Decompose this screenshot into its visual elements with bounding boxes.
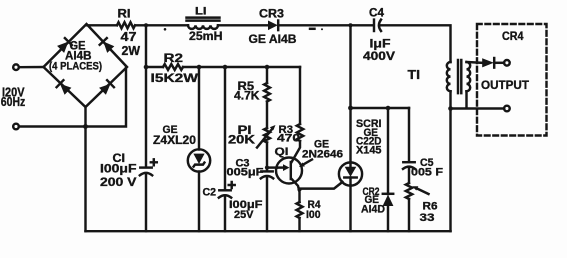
junction dot bridge-bottom/input wire (83, 124, 88, 129)
CR4 dashed enclosure (477, 24, 547, 136)
bridge diode bottom-left (60, 84, 71, 95)
diode CR4 bar (493, 58, 495, 68)
svg-text:R2: R2 (164, 51, 184, 65)
svg-text:25mH: 25mH (189, 29, 223, 43)
svg-text:I00μF: I00μF (100, 163, 137, 175)
SCR1 leads inside (349, 163, 351, 186)
output terminal top (504, 60, 510, 66)
SCR1 cathode bar (344, 176, 356, 178)
svg-text:I00: I00 (306, 209, 321, 221)
capacitor C2 (219, 189, 230, 191)
junction dot emitter/C3 (265, 166, 269, 170)
capacitor C3 (261, 170, 272, 172)
wire bridge bottom vertex to bottom rail (84, 107, 86, 231)
resistor R5 (264, 83, 270, 102)
junction dot rail/R2 row (144, 65, 149, 70)
junction dot SCR anode node (348, 106, 353, 111)
svg-text:CR3: CR3 (259, 6, 284, 20)
input terminal top (13, 64, 19, 70)
wire secondary bottom to output (451, 91, 505, 108)
wire R3 branch (299, 67, 301, 124)
junction dot gate/B1 (297, 187, 301, 191)
wire C2 branch (224, 67, 226, 231)
bridge diode top-left (57, 42, 68, 53)
inductor L1 core bars (187, 18, 220, 21)
R6 pointer arrow (416, 188, 429, 194)
wire top rail left segment (87, 24, 374, 26)
wire zener branch (198, 67, 200, 231)
speck near R1 junction (164, 28, 167, 31)
C2 plus sign (229, 182, 235, 188)
wire C1 branch vertical (145, 25, 147, 231)
svg-text:CR4: CR4 (502, 31, 524, 43)
svg-text:200 V: 200 V (100, 177, 137, 189)
svg-text:TI: TI (408, 68, 421, 82)
svg-text:R6: R6 (423, 200, 438, 212)
svg-text:AI4D: AI4D (361, 203, 385, 215)
wire CR2 branch (387, 108, 389, 231)
wire secondary top to CR4 (467, 61, 482, 64)
Q1 emitter arrow (277, 166, 284, 168)
capacitor C5 (403, 161, 414, 163)
SCR1 triangle (345, 167, 357, 177)
svg-text:I5K2W: I5K2W (151, 71, 199, 85)
zener diode GE Z4XL20 circle (188, 149, 210, 171)
wire top rail right segment to transformer (380, 25, 451, 62)
wire Q1 emitter (267, 166, 277, 168)
resistor R2 (163, 64, 183, 70)
wire SCR branch vertical (349, 25, 351, 231)
wire primary bottom to rail (449, 91, 451, 231)
bridge rectifier diamond (44, 24, 128, 107)
bridge diode bottom-right (99, 84, 110, 95)
transformer T1 primary winding (447, 62, 451, 91)
capacitor C1 (140, 166, 151, 168)
junction dot R2row/zener (197, 65, 202, 70)
transformer T1 secondary winding (467, 62, 471, 91)
resistor R6 (406, 183, 412, 199)
diode CR3 (268, 21, 278, 31)
resistor R3 (297, 124, 303, 141)
svg-text:60Hz: 60Hz (1, 95, 26, 109)
wire node to CR2/C5 branches (351, 107, 410, 109)
svg-text:OUTPUT: OUTPUT (481, 78, 530, 92)
svg-text:25V: 25V (234, 209, 254, 221)
junction dot rail/SCR branch (349, 23, 353, 27)
svg-text:33: 33 (420, 212, 435, 224)
bridge diode top-right (103, 42, 114, 53)
svg-text:LI: LI (195, 6, 207, 18)
Q1 base1 lead (292, 179, 300, 202)
transistor Q1 unijunction circle (276, 158, 302, 184)
Q1 base bar (290, 162, 292, 179)
svg-text:RI: RI (118, 9, 131, 21)
wire R5-P1-C3 branch (266, 67, 268, 231)
svg-text:400V: 400V (363, 49, 395, 63)
svg-text:X145: X145 (356, 144, 382, 156)
wire R4 to rail (298, 218, 300, 231)
svg-text:Z4XL20: Z4XL20 (153, 135, 196, 147)
svg-text:C2: C2 (203, 186, 217, 198)
junction dot R2row/C2 (223, 65, 228, 70)
input terminal bottom (13, 124, 19, 130)
svg-text:(4 PLACES): (4 PLACES) (49, 61, 102, 73)
diode CR2 bar (383, 193, 393, 195)
svg-text:2W: 2W (122, 44, 141, 58)
speck near CR3 (310, 28, 315, 30)
junction dot R1/C1 branch (144, 23, 148, 27)
svg-text:GE AI4B: GE AI4B (249, 32, 297, 46)
output terminal bottom (504, 106, 510, 112)
svg-text:QI: QI (275, 146, 289, 158)
C1 plus sign (151, 159, 157, 165)
junction dot R2row/R5 (265, 65, 270, 70)
inductor L1 (188, 25, 218, 29)
transformer core bars (458, 60, 461, 93)
resistor R4 (297, 202, 303, 218)
svg-text:C4: C4 (369, 5, 384, 19)
svg-text:2N2646: 2N2646 (302, 149, 343, 161)
diode CR2 triangle (383, 195, 394, 206)
wire SCR gate (300, 182, 343, 189)
wire CR4 to terminal (494, 62, 504, 64)
svg-text:4.7K: 4.7K (234, 91, 260, 103)
resistor R1 (117, 22, 135, 28)
P1 wiper arrow (257, 129, 273, 148)
Q1 base2 lead (292, 141, 301, 162)
diode CR4 triangle (482, 58, 494, 67)
svg-text:20K: 20K (228, 135, 256, 147)
svg-text:005μF: 005μF (227, 167, 264, 179)
svg-text:47: 47 (121, 30, 137, 44)
zener triangle (193, 154, 204, 164)
capacitor C4 (373, 20, 375, 31)
svg-text:470: 470 (277, 133, 300, 145)
potentiometer P1 (264, 128, 270, 143)
junction dot primary/output-return (448, 106, 453, 111)
svg-text:005 F: 005 F (411, 166, 443, 178)
SCR1 circle (339, 162, 362, 185)
Q1 label arrow (303, 160, 313, 166)
junction dot node/CR2 (386, 106, 391, 111)
wire R2 row (146, 66, 300, 68)
wire C5-R6 branch (408, 108, 410, 231)
wire top input to bridge (19, 66, 44, 69)
zener bar (194, 163, 205, 167)
wire bottom input to bridge right vertex (19, 68, 126, 127)
wire bottom rail (86, 230, 451, 232)
